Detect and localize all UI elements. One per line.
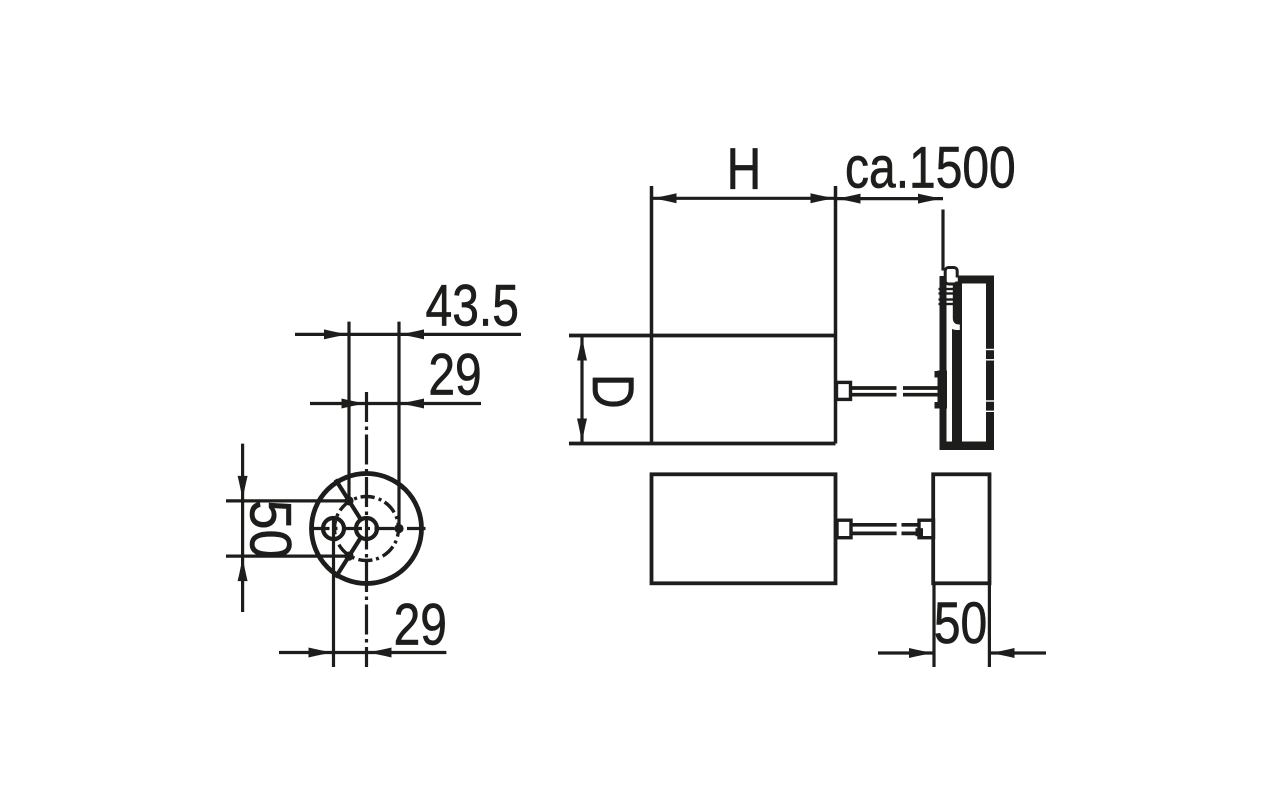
plug boot tab top (935, 371, 939, 378)
dim 50 right arrow left (909, 648, 934, 658)
radial line lower (336, 537, 361, 577)
cable bottom seg1 bottom (851, 532, 897, 536)
cable top view seg2 bottom line (903, 393, 938, 397)
radial line upper (336, 480, 361, 520)
horizontal centerline (308, 527, 426, 530)
dim 50 left vertical line (241, 444, 244, 612)
dim ca.1500 line (836, 197, 944, 200)
dim 29 bottom arrow right (367, 648, 392, 658)
outer circle (312, 474, 422, 584)
cable stub top view (837, 382, 851, 399)
left hole (323, 518, 344, 539)
body right edge + H ext (834, 186, 838, 444)
pin3 extension line (397, 322, 400, 529)
dim D line (580, 336, 583, 444)
svg-text:29: 29 (394, 593, 447, 658)
dim H line (652, 197, 836, 200)
dim 50 ext top (226, 499, 349, 502)
ca.1500 right ext line (941, 210, 944, 271)
body left edge + H ext (650, 186, 654, 444)
svg-text:ca.1500: ca.1500 (845, 136, 1016, 201)
dim 29 bottom arrow left (309, 648, 334, 658)
cable plug tip (919, 520, 934, 538)
svg-text:50: 50 (934, 592, 987, 657)
cable bottom seg1 top (851, 523, 897, 527)
plug top cap (957, 276, 994, 284)
cable top view seg1 bottom line (851, 393, 897, 397)
plug front rect (933, 474, 989, 583)
svg-text:43.5: 43.5 (426, 274, 519, 339)
dim D arrow bottom (577, 419, 587, 444)
pin dot upper-left (344, 496, 353, 505)
dim 50 ext bottom (226, 554, 349, 557)
cable top view seg2 top line (903, 386, 938, 390)
dim H arrow left (652, 193, 677, 203)
cable top view seg1 top line (851, 386, 897, 390)
cable bottom seg2 bottom (902, 532, 920, 536)
plug right bar white ticks (986, 350, 994, 412)
cable tip step (916, 528, 924, 536)
dim 50 left arrow top (238, 476, 248, 501)
pin1 extension line (347, 322, 350, 501)
dim 29 bottom line (279, 651, 446, 654)
dim 43.5 arrow right (399, 329, 424, 339)
pin dot lower-left (344, 552, 353, 561)
dim ca.1500 arrow right (918, 194, 943, 204)
plug left bar (940, 276, 947, 450)
body bottom edge + D ext (569, 442, 836, 446)
svg-text:H: H (727, 137, 762, 202)
dim 50 left arrow bottom (238, 556, 248, 581)
svg-text:50: 50 (238, 500, 304, 559)
body top edge + D ext (569, 334, 836, 338)
dim 50 right arrow right (990, 648, 1015, 658)
plug J channel white (947, 280, 960, 330)
plug boot tab bottom (935, 402, 939, 409)
plug hatch lines (939, 289, 955, 304)
cable bottom seg2 top (902, 523, 920, 527)
plug ext right (988, 583, 991, 667)
dim 29 top line (310, 402, 481, 405)
plug hook notch (954, 278, 958, 282)
plug middle bar (952, 277, 962, 450)
pin dot right (394, 524, 403, 533)
dim 43.5 arrow left (324, 329, 349, 339)
dim 29 top arrow left (342, 399, 367, 409)
pitch circle dash-dot (335, 497, 399, 561)
vertical centerline (365, 392, 368, 667)
plug bottom cap (943, 442, 994, 451)
cable stub bottom view (837, 520, 851, 538)
dim H arrow right (811, 193, 836, 203)
plug ext left (932, 583, 935, 667)
dim D arrow top (577, 336, 587, 361)
svg-text:D: D (580, 374, 645, 409)
dim 50 right line right seg (990, 651, 1047, 654)
dim ca.1500 arrow left (836, 194, 861, 204)
left hole vertical line (332, 520, 335, 668)
dim 43.5 line (295, 333, 521, 336)
dim 50 right line left seg (878, 651, 934, 654)
plug right bar (986, 276, 994, 451)
plug boot main (938, 371, 948, 409)
plug hook outline (945, 268, 957, 285)
body rect bottom view (652, 474, 836, 583)
svg-text:29: 29 (428, 343, 481, 408)
dim 29 top arrow right (399, 399, 424, 409)
center hole (356, 518, 377, 539)
